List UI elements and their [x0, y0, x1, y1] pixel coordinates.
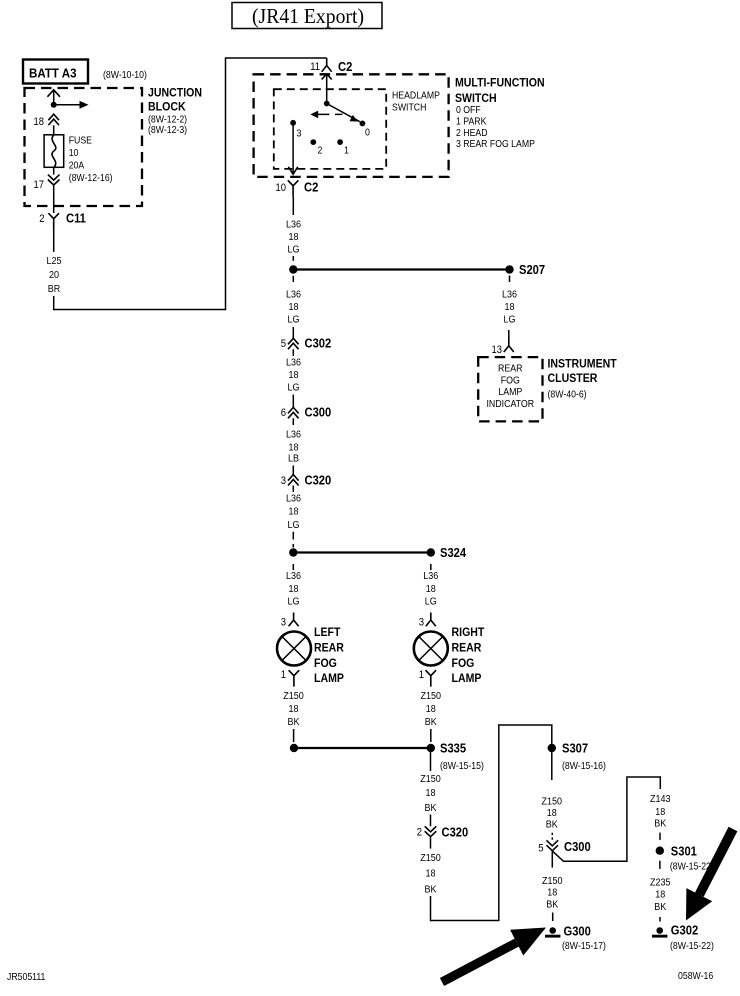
svg-text:FOG: FOG	[314, 656, 337, 670]
svg-text:1: 1	[419, 669, 424, 681]
svg-text:S207: S207	[519, 262, 545, 277]
svg-text:2: 2	[318, 145, 323, 157]
svg-text:18: 18	[547, 888, 557, 899]
svg-text:2: 2	[417, 827, 422, 839]
svg-text:18: 18	[426, 869, 436, 880]
svg-text:FOG: FOG	[452, 656, 475, 670]
svg-text:L36: L36	[286, 358, 301, 369]
svg-text:SWITCH: SWITCH	[455, 91, 497, 105]
svg-text:3: 3	[297, 128, 302, 140]
svg-text:LG: LG	[288, 383, 300, 394]
svg-text:18: 18	[289, 370, 299, 381]
svg-text:FOG: FOG	[501, 374, 520, 386]
svg-text:1: 1	[281, 669, 286, 681]
svg-text:1 PARK: 1 PARK	[456, 116, 486, 128]
svg-text:18: 18	[426, 788, 436, 799]
svg-text:18: 18	[505, 302, 515, 313]
svg-text:L36: L36	[502, 290, 517, 301]
svg-text:BK: BK	[288, 717, 300, 728]
svg-text:11: 11	[310, 61, 320, 73]
svg-text:10: 10	[69, 147, 79, 159]
svg-text:LAMP: LAMP	[314, 671, 344, 685]
svg-text:L36: L36	[286, 494, 301, 505]
svg-text:MULTI-FUNCTION: MULTI-FUNCTION	[455, 75, 545, 89]
svg-text:LB: LB	[288, 454, 299, 465]
svg-text:18: 18	[655, 889, 665, 900]
svg-text:JR505111: JR505111	[7, 971, 46, 983]
svg-text:0: 0	[365, 127, 370, 139]
svg-text:058W-16: 058W-16	[678, 970, 713, 982]
svg-text:18: 18	[547, 808, 557, 819]
svg-text:18: 18	[289, 302, 299, 313]
svg-text:C2: C2	[304, 180, 318, 195]
svg-text:18: 18	[655, 807, 665, 818]
svg-text:LG: LG	[288, 597, 300, 608]
svg-text:BK: BK	[654, 902, 666, 913]
svg-text:(8W-15-17): (8W-15-17)	[562, 940, 606, 952]
svg-text:(8W-15-15): (8W-15-15)	[440, 760, 484, 772]
svg-text:3: 3	[419, 617, 424, 629]
svg-text:LAMP: LAMP	[498, 386, 522, 398]
svg-text:SWITCH: SWITCH	[392, 101, 426, 113]
svg-text:Z150: Z150	[421, 691, 442, 702]
svg-text:Z143: Z143	[650, 794, 671, 805]
svg-text:LG: LG	[288, 245, 300, 256]
svg-text:LEFT: LEFT	[314, 625, 341, 639]
svg-text:BK: BK	[425, 717, 437, 728]
svg-text:Z150: Z150	[420, 774, 441, 785]
svg-text:18: 18	[289, 584, 299, 595]
svg-text:BK: BK	[425, 885, 437, 896]
svg-text:INDICATOR: INDICATOR	[486, 398, 534, 410]
svg-text:BK: BK	[425, 803, 437, 814]
svg-text:17: 17	[34, 179, 45, 191]
svg-text:S324: S324	[440, 545, 467, 560]
svg-text:0 OFF: 0 OFF	[456, 104, 481, 116]
svg-text:BK: BK	[654, 819, 666, 830]
svg-text:LG: LG	[288, 520, 300, 531]
svg-text:S301: S301	[671, 844, 697, 859]
svg-text:S307: S307	[562, 741, 588, 756]
svg-text:18: 18	[289, 507, 299, 518]
svg-text:(8W-12-3): (8W-12-3)	[148, 124, 187, 136]
svg-text:Z150: Z150	[283, 691, 304, 702]
svg-text:G300: G300	[564, 924, 591, 939]
svg-text:S335: S335	[440, 741, 466, 756]
svg-text:C300: C300	[305, 405, 332, 420]
svg-text:C320: C320	[442, 825, 469, 840]
svg-text:20: 20	[49, 270, 59, 281]
svg-text:10: 10	[276, 182, 287, 194]
svg-text:G302: G302	[671, 923, 698, 938]
svg-text:(8W-10-10): (8W-10-10)	[103, 69, 147, 81]
svg-text:BR: BR	[48, 284, 61, 295]
svg-text:Z150: Z150	[542, 876, 563, 887]
svg-text:L36: L36	[286, 220, 301, 231]
svg-text:Z235: Z235	[650, 878, 671, 889]
svg-text:5: 5	[538, 843, 543, 855]
svg-text:JUNCTION: JUNCTION	[148, 86, 202, 100]
svg-text:CLUSTER: CLUSTER	[548, 371, 598, 385]
svg-text:HEADLAMP: HEADLAMP	[392, 90, 440, 102]
svg-text:BK: BK	[546, 820, 558, 831]
svg-text:18: 18	[289, 443, 299, 454]
svg-text:18: 18	[289, 232, 299, 243]
svg-text:Z150: Z150	[542, 797, 563, 808]
svg-text:LG: LG	[288, 315, 300, 326]
svg-text:LG: LG	[425, 597, 437, 608]
svg-text:2: 2	[39, 213, 44, 225]
svg-text:BK: BK	[546, 900, 558, 911]
svg-text:13: 13	[492, 344, 503, 356]
svg-text:BATT A3: BATT A3	[29, 66, 77, 81]
svg-text:6: 6	[281, 407, 286, 419]
svg-text:1: 1	[344, 145, 349, 157]
svg-text:18: 18	[34, 116, 45, 128]
svg-text:C320: C320	[305, 473, 332, 488]
svg-text:FUSE: FUSE	[69, 135, 92, 147]
svg-text:18: 18	[426, 584, 436, 595]
svg-text:18: 18	[289, 704, 299, 715]
svg-text:BLOCK: BLOCK	[148, 100, 186, 114]
svg-text:(8W-15-22): (8W-15-22)	[670, 940, 714, 952]
svg-text:3: 3	[281, 475, 286, 487]
svg-text:LAMP: LAMP	[452, 671, 482, 685]
svg-text:L36: L36	[286, 290, 301, 301]
svg-text:L25: L25	[47, 256, 62, 267]
svg-text:18: 18	[426, 704, 436, 715]
svg-text:(8W-12-16): (8W-12-16)	[69, 172, 113, 184]
svg-text:C302: C302	[305, 336, 332, 351]
svg-text:5: 5	[281, 338, 286, 350]
svg-text:REAR: REAR	[452, 641, 482, 655]
svg-text:3: 3	[281, 617, 286, 629]
svg-text:INSTRUMENT: INSTRUMENT	[548, 357, 618, 371]
svg-text:3 REAR FOG LAMP: 3 REAR FOG LAMP	[456, 138, 535, 150]
svg-text:REAR: REAR	[314, 641, 344, 655]
svg-text:L36: L36	[423, 571, 438, 582]
svg-text:L36: L36	[286, 430, 301, 441]
svg-text:REAR: REAR	[498, 363, 523, 375]
svg-text:2 HEAD: 2 HEAD	[456, 127, 488, 139]
svg-text:(8W-40-6): (8W-40-6)	[548, 389, 587, 401]
svg-text:L36: L36	[286, 571, 301, 582]
svg-text:RIGHT: RIGHT	[452, 625, 485, 639]
svg-text:C2: C2	[338, 59, 352, 74]
svg-text:Z150: Z150	[420, 853, 441, 864]
svg-text:LG: LG	[504, 315, 516, 326]
svg-text:20A: 20A	[69, 160, 85, 172]
svg-text:C11: C11	[66, 211, 86, 226]
svg-text:(JR41 Export): (JR41 Export)	[252, 4, 364, 28]
svg-text:C300: C300	[564, 839, 591, 854]
svg-text:(8W-15-16): (8W-15-16)	[562, 760, 606, 772]
